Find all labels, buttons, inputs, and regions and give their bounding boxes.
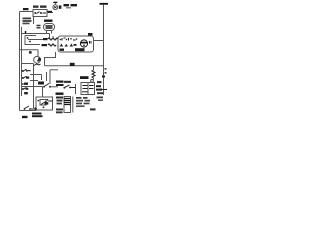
label coil W2: [42, 44, 48, 46]
wire row y86: [22, 86, 43, 88]
label pair below SW1: [37, 26, 41, 28]
timer contacts inside T1 row 2: [60, 44, 64, 47]
label on wire to lamp: [48, 11, 53, 13]
label TH on L2: [97, 81, 102, 83]
wire left bus second vertical: [21, 27, 23, 96]
label col right of B1: [56, 97, 63, 99]
selector contact K1: [22, 70, 24, 72]
selector contact K5: [24, 92, 28, 94]
coil winding W1: [48, 38, 58, 40]
cascade wire C3: [41, 75, 43, 81]
B1 inner relay: [40, 100, 46, 106]
timer switch box T1: [58, 36, 94, 52]
SW1 contacts: [34, 12, 36, 14]
wire gauge ticks on L2: [105, 68, 107, 70]
wire timer drop: [45, 52, 56, 66]
label col right of SW3: [56, 81, 64, 83]
label 2 near timer motor: [38, 58, 41, 61]
wire row y80: [30, 80, 38, 82]
switch on GRN wire: [65, 85, 70, 88]
wire upper timer feed: [22, 33, 50, 35]
label BUZZER: [44, 20, 53, 22]
wire left bus vertical: [19, 12, 21, 111]
selector switch SW2 box: [25, 36, 40, 45]
terminal circle on heater drop: [91, 79, 94, 82]
wire lamp drop: [37, 50, 39, 56]
wire L2 right bus vertical: [103, 5, 105, 96]
cascade wire C2: [46, 72, 48, 81]
wire L1 top horizontal: [20, 11, 34, 13]
wire beside E1: [72, 97, 74, 113]
coil winding W2: [48, 44, 56, 46]
label C beside lamp: [59, 5, 62, 8]
heater element R1 vertical: [92, 70, 95, 78]
junction dot J1: [34, 107, 37, 110]
timer motor TM circle: [34, 56, 41, 63]
label TO block under B1: [32, 113, 42, 115]
motor M1 circle: [80, 40, 87, 47]
label near SW3: [38, 82, 44, 85]
indicator lamp PL1: [53, 5, 58, 10]
cascade wire C1: [50, 69, 58, 71]
heating element E1 ladder: [64, 97, 71, 113]
label thermostat values: [96, 85, 101, 87]
label TO GRN: [64, 81, 71, 83]
selector contact K3: [24, 83, 28, 85]
label BU on branch: [70, 63, 75, 66]
motor pin ticks: [89, 41, 91, 44]
label W near lamp wire: [29, 51, 32, 53]
wire motor to L2: [94, 40, 104, 42]
note block bottom right: [76, 97, 82, 99]
selector arm squiggle: [34, 64, 41, 66]
selector contact K4: [22, 88, 24, 90]
label coil W1: [43, 38, 48, 40]
wire L2 branch horizontal y65: [45, 65, 104, 67]
timer contacts inside T1 row 1: [60, 39, 62, 41]
label BK bottom: [22, 116, 28, 118]
wire row y74: [30, 74, 42, 76]
wire bottom-left horizontal: [20, 110, 37, 112]
buzzer BZ1 body: [44, 24, 55, 31]
wire cluster drop: [75, 84, 77, 94]
wire coil stubs: [49, 34, 51, 39]
wire box A to lamp: [47, 12, 53, 14]
label BK on L1: [23, 8, 29, 10]
terminal L2 cap: [100, 3, 109, 5]
thermostat TS2 on L2: [100, 89, 107, 91]
wire heater drop: [93, 66, 95, 70]
SW2 stem: [25, 31, 27, 34]
selector box top edge: [22, 63, 34, 65]
wire heat feed: [31, 39, 43, 41]
SW2 contacts: [27, 37, 29, 39]
buzzer BZ1 label wire: [46, 31, 48, 34]
selector contact K2: [22, 77, 24, 79]
door switch SW1 box: [33, 10, 47, 17]
label MOTOR in box: [75, 48, 85, 51]
label BK motor: [88, 33, 93, 36]
wire stub below SW1: [33, 17, 35, 25]
door switch SW4 bottom: [25, 106, 30, 109]
thermostat block TS1: [81, 83, 95, 95]
wire lamp branch: [20, 49, 39, 51]
wire mid vertical bus: [33, 64, 35, 109]
note text top: [64, 4, 70, 6]
label block door switch: [23, 18, 32, 20]
label HEATER: [80, 76, 89, 79]
wire to bottom box: [42, 87, 44, 98]
label PUSH TO START above SW1: [33, 6, 39, 8]
motor switch box B1: [36, 97, 53, 110]
bottom switch SW3: [44, 84, 49, 87]
